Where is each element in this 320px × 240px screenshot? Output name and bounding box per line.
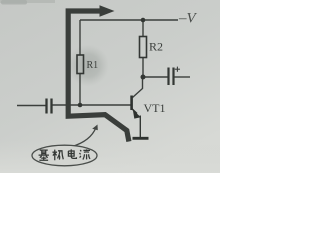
base bar [130, 96, 133, 111]
wire: R2 bottom to collector node [142, 58, 144, 78]
gray highlight circle behind R1 [67, 45, 109, 87]
wire: input lead left of capacitor [17, 105, 46, 107]
emitter arrowhead [133, 110, 141, 119]
callout arrowhead [92, 125, 98, 131]
capacitor C2 (output, polarized) [169, 68, 174, 86]
svg-text:R2: R2 [149, 40, 163, 54]
wire: base wire from input cap to transistor base [53, 104, 132, 106]
wire: left vertical branch lower (R1 to base wire) [79, 74, 81, 106]
node dot at R1 / base wire [78, 103, 83, 108]
transistor VT1 [132, 96, 166, 139]
wire: R2 branch top (rail to R2) [142, 20, 144, 37]
node dot at top rail / R2 [141, 18, 146, 23]
svg-text:R1: R1 [87, 60, 99, 71]
svg-text:–V: –V [178, 11, 198, 27]
ground bar [133, 137, 149, 140]
char 基 [39, 150, 49, 160]
emitter vertical lead [139, 116, 141, 138]
resistor R1 [77, 55, 84, 74]
text 基极电流 (base current), drawn as paths [39, 149, 90, 160]
label ellipse 基极电流 [32, 145, 97, 166]
wire: top horizontal rail to -V [80, 19, 178, 21]
thick base-current path [68, 11, 129, 142]
wire: output lead right of cap [175, 76, 191, 78]
char 电 [68, 149, 76, 158]
char 极 [52, 150, 63, 161]
scan smudge top edge [0, 0, 55, 3]
callout curved arrow [72, 128, 96, 147]
node dot at R2 bottom / collector [141, 75, 146, 80]
emitter diagonal [132, 109, 137, 114]
char 流 [79, 149, 90, 159]
capacitor C1 (input) [47, 99, 52, 114]
svg-text:VT1: VT1 [144, 101, 166, 115]
wire: left vertical branch upper (top rail to R1) [79, 20, 81, 55]
resistor R2 [140, 37, 147, 58]
arrowhead of base-current path [100, 5, 115, 16]
wire: collector node to output cap [143, 76, 168, 78]
plus sign of output capacitor [175, 67, 180, 72]
wire: collector lead [133, 77, 143, 98]
